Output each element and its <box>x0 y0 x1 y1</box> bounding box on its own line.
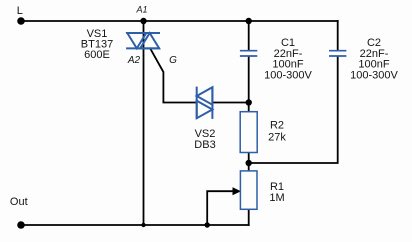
terminal L <box>17 17 25 25</box>
svg-text:G: G <box>169 55 177 66</box>
svg-text:27k: 27k <box>268 132 286 144</box>
wiper arrowhead <box>233 187 242 195</box>
triac VS1 <box>126 33 160 48</box>
wire A2 down to bottom rail <box>143 34 145 226</box>
node R2-C2-R1 junction <box>246 160 252 166</box>
wire C2 upper stub <box>337 20 339 50</box>
wire top rail L to C2 corner <box>21 20 339 22</box>
svg-text:600E: 600E <box>84 49 110 61</box>
wire gate G to diac <box>150 48 197 102</box>
node A2 bottom junction <box>141 223 145 227</box>
wire R2 to R1 <box>248 152 250 172</box>
terminal Out <box>17 221 25 229</box>
wire bottom rail Out to R1 <box>21 224 250 226</box>
svg-text:Out: Out <box>10 196 28 208</box>
svg-text:R1: R1 <box>270 181 284 193</box>
node A1 junction <box>140 18 146 24</box>
wire diac to C1 junction <box>212 102 249 104</box>
wire C2 lower to R2 junction <box>249 56 338 163</box>
node diac-C1-R2 junction <box>246 99 252 105</box>
node C1 top junction <box>246 18 252 24</box>
wire A1 stub <box>143 21 145 34</box>
svg-text:1M: 1M <box>269 192 284 204</box>
diac VS2 <box>197 87 213 119</box>
svg-text:100-300V: 100-300V <box>264 69 312 81</box>
svg-text:A2: A2 <box>127 55 141 66</box>
wire C1 upper stub <box>248 20 250 50</box>
svg-text:DB3: DB3 <box>194 139 215 151</box>
svg-text:L: L <box>17 5 23 17</box>
svg-text:R2: R2 <box>270 120 284 132</box>
svg-text:100-300V: 100-300V <box>350 69 398 81</box>
node wiper bottom junction <box>205 222 210 227</box>
capacitor C1 <box>240 51 257 56</box>
wire R1 bottom stub <box>248 209 250 226</box>
resistor R2 <box>240 112 257 153</box>
potentiometer R1 <box>240 171 257 209</box>
svg-text:A1: A1 <box>135 5 147 15</box>
capacitor C2 <box>329 51 346 56</box>
wire C1 lower to R2 <box>248 56 250 112</box>
wire wiper of R1 <box>207 191 234 226</box>
